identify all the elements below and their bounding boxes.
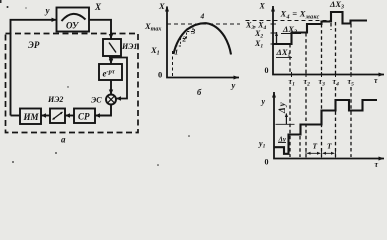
svg-text:у: у [261, 97, 266, 106]
svg-text:СР: СР [78, 112, 90, 122]
svg-text:0: 0 [158, 70, 162, 80]
svg-text:ЭР: ЭР [28, 40, 40, 50]
svg-text:T: T [313, 142, 318, 151]
svg-text:0: 0 [265, 66, 269, 75]
svg-text:ЭС: ЭС [91, 96, 102, 105]
svg-text:ОУ: ОУ [66, 21, 80, 31]
svg-text:4: 4 [200, 12, 205, 21]
svg-text:X: X [94, 2, 102, 12]
svg-text:ИЭ2: ИЭ2 [47, 95, 63, 104]
svg-text:X: X [158, 1, 165, 11]
svg-text:X: X [259, 2, 266, 11]
svg-text:3: 3 [191, 27, 196, 36]
svg-text:ИЭ1: ИЭ1 [121, 42, 137, 51]
svg-text:у: у [231, 80, 236, 90]
svg-text:T: T [327, 142, 332, 151]
svg-text:ИМ: ИМ [23, 112, 40, 122]
svg-text:2: 2 [182, 35, 187, 44]
svg-text:1: 1 [175, 48, 179, 57]
svg-text:0: 0 [265, 158, 269, 167]
svg-text:а: а [61, 135, 66, 145]
svg-text:Δу: Δу [278, 136, 287, 144]
svg-text:τ: τ [375, 160, 379, 169]
svg-text:Δу: Δу [277, 101, 287, 114]
svg-text:τ: τ [374, 76, 378, 85]
